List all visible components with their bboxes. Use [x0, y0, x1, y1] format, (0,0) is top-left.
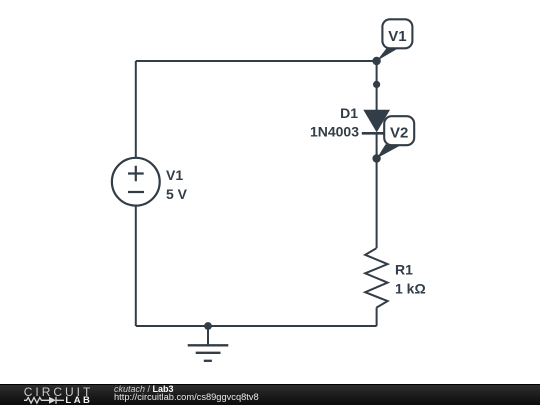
wire: bottom horizontal from source to resistor branch: [136, 325, 377, 327]
footer meta line 1: author / title: [114, 384, 174, 394]
voltage source V1 (circle with plus and minus): [112, 158, 160, 206]
footer bar: [0, 384, 540, 405]
wire: left vertical lower (V1 - terminal down to bottom corner): [135, 206, 137, 326]
wire: left vertical upper (top corner down to V1 + terminal): [135, 61, 137, 158]
ground symbol: [188, 326, 229, 361]
svg-text:5 V: 5 V: [166, 186, 188, 202]
svg-text:1N4003: 1N4003: [310, 124, 359, 140]
node junction dot at ground tap: [204, 322, 212, 330]
CircuitLab logo wordmark CIRCUIT: [24, 386, 94, 398]
svg-text:D1: D1: [340, 105, 358, 121]
svg-text:V1: V1: [388, 28, 406, 45]
node dot at diode anode terminal: [373, 81, 380, 88]
net flag V1 (rounded box with pointer tail): [377, 19, 413, 61]
CircuitLab logo wordmark LAB: [65, 396, 92, 406]
node junction dot at top-right corner (net V1): [372, 57, 380, 65]
node junction dot below diode (net V2): [372, 154, 380, 162]
footer meta line 2: url text: [114, 392, 259, 402]
diode D1 (triangle + cathode bar): [362, 110, 392, 134]
svg-text:V2: V2: [390, 124, 408, 141]
net flag V2 (rounded box with pointer tail): [377, 116, 414, 158]
svg-text:V1: V1: [166, 167, 183, 183]
wire: top horizontal from V1 source to diode branch: [136, 60, 377, 62]
resistor R1 zigzag: [365, 248, 387, 307]
svg-text:R1: R1: [395, 262, 413, 278]
svg-text:1 kΩ: 1 kΩ: [395, 281, 426, 297]
wire: right vertical from resistor bottom to bottom corner: [376, 308, 378, 326]
CircuitLab logo squiggle (resistor + diode): [0, 384, 110, 405]
wire: right vertical from diode cathode to resistor top: [376, 133, 378, 248]
wire: right vertical from top corner to diode anode: [376, 61, 378, 110]
